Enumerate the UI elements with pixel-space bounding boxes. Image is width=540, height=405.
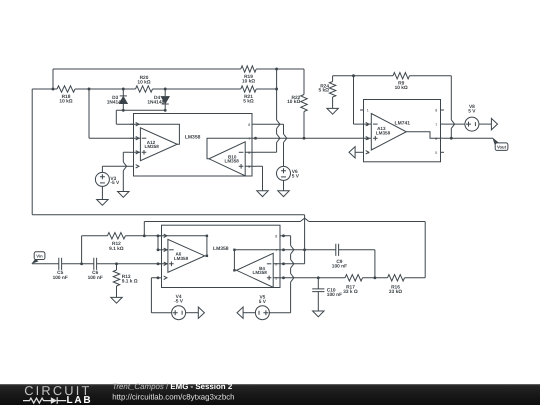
wire: Vin to C5 <box>32 263 59 265</box>
resistor R13 with ground <box>113 264 138 298</box>
wire: U3 pin 4 (V-) to V4 <box>151 278 171 313</box>
svg-text:5 V: 5 V <box>468 109 476 115</box>
svg-text:100 nF: 100 nF <box>332 264 347 270</box>
resistor R21 <box>241 86 256 105</box>
svg-text:10 kΩ: 10 kΩ <box>287 99 300 105</box>
svg-text:5: 5 <box>248 165 250 169</box>
svg-text:10 kΩ: 10 kΩ <box>137 80 150 86</box>
svg-text:LM358: LM358 <box>145 144 160 149</box>
resistor R16 <box>388 275 405 296</box>
svg-text:http://circuitlab.com/c8ytxag3: http://circuitlab.com/c8ytxag3xzbch <box>112 393 234 402</box>
ground (rotated left, before V5) <box>237 307 243 318</box>
wire: R18/R20 node down to A12 inverting input pin 2 <box>89 89 134 138</box>
svg-text:100 nF: 100 nF <box>327 292 342 298</box>
node: C9/R17/R16 junction <box>373 276 376 279</box>
ground (below V6) <box>278 191 289 197</box>
wire: output pin 6 to Vout <box>444 137 493 139</box>
svg-text:100 nF: 100 nF <box>53 275 68 281</box>
wire: R12 node up and across to R16 (wire B) <box>144 218 425 278</box>
svg-text:LM358: LM358 <box>376 130 391 135</box>
op-amp A6 (LM358) triangle <box>162 235 209 273</box>
resistor R18 <box>57 86 75 105</box>
capacitor C10 with ground <box>312 278 342 311</box>
node: A6 pin 1 connection dot <box>157 234 160 237</box>
op-amp A12 (LM358) triangle <box>134 124 180 161</box>
svg-text:6: 6 <box>435 137 437 141</box>
pin stubs and arrows of U3 <box>158 234 284 280</box>
resistor R12 <box>107 233 161 252</box>
op-amp B4 (LM358) triangle, mirrored <box>233 249 280 288</box>
footer bar <box>0 384 540 405</box>
svg-text:LM358: LM358 <box>213 246 229 252</box>
svg-text:Vout: Vout <box>497 144 507 149</box>
ground (rotated left, U2 pin 4) <box>349 147 360 158</box>
wire: lower input rail segments <box>62 263 162 265</box>
svg-text:Trent_Campos / EMG - Session 2: Trent_Campos / EMG - Session 2 <box>112 382 233 391</box>
capacitor C6 <box>88 258 103 281</box>
wire: U3 pin 8 (V+) to V5 <box>269 236 294 313</box>
resistor R22 <box>287 69 307 138</box>
svg-text:8: 8 <box>275 235 277 239</box>
op-amp A13 (LM358) triangle <box>364 114 441 151</box>
node flag Vin <box>32 252 45 264</box>
svg-text:LM358: LM358 <box>253 270 268 275</box>
svg-text:LM358: LM358 <box>185 135 201 141</box>
ground (below R24) <box>327 108 338 114</box>
wire: node1 up to R12 <box>82 236 108 264</box>
node: C5/C6/R12 junction <box>80 262 83 265</box>
svg-text:9.1 kΩ: 9.1 kΩ <box>109 246 124 252</box>
ground (B10 + input) <box>257 191 268 197</box>
svg-text:10 kΩ: 10 kΩ <box>242 78 255 84</box>
voltage source V6 (5 V) <box>277 166 300 190</box>
svg-text:33 k Ω: 33 k Ω <box>343 289 358 295</box>
op-amp package U2 (LM741, A13) box <box>364 100 441 162</box>
svg-text:5: 5 <box>435 151 437 155</box>
ground (rotated right, after V4) <box>198 307 204 318</box>
svg-text:-5 V: -5 V <box>110 180 120 186</box>
op-amp B10 (LM358) triangle, mirrored <box>207 138 252 176</box>
pin stubs and arrows of U1 <box>130 123 256 170</box>
svg-text:10 kΩ: 10 kΩ <box>59 98 72 104</box>
wire: main upper rail through R18/R20/R21 <box>32 88 276 90</box>
svg-text:8: 8 <box>435 109 437 113</box>
node: A6 pin 2 connection dot <box>157 248 160 251</box>
wire: left feedback rail from R18 left down and across (wire A) <box>32 89 304 250</box>
resistor R17 <box>343 275 362 296</box>
voltage source V3 (-5 V) <box>95 172 120 199</box>
svg-text:1N4148: 1N4148 <box>107 99 124 105</box>
svg-text:LM358: LM358 <box>174 256 189 261</box>
ground (below R13) <box>111 297 122 303</box>
node: R22/main wire junction <box>303 137 306 140</box>
node: B4 output/feedback 4-way junction <box>303 248 306 251</box>
node: C10 tap junction <box>317 276 320 279</box>
capacitor C5 <box>53 258 68 281</box>
svg-text:7: 7 <box>275 249 277 253</box>
voltage source V4 (-5 V) <box>172 294 199 320</box>
wire: B4 output pin 7 through C9 <box>284 250 375 278</box>
voltage source V5 (5 V) <box>243 295 269 320</box>
svg-text:10 kΩ: 10 kΩ <box>395 85 408 91</box>
wire: R24 top to R9 feedback rail <box>333 75 452 77</box>
svg-text:LAB: LAB <box>67 395 93 405</box>
svg-text:7: 7 <box>248 137 250 141</box>
wire: R9 right side down to output pin 6 <box>451 76 454 139</box>
svg-text:LM358: LM358 <box>225 159 240 164</box>
node: R21 wire junction <box>275 88 278 91</box>
node: U3 right pin connection dots (pins 8,7,6,5) <box>282 234 285 279</box>
svg-text:6: 6 <box>248 151 250 155</box>
wire: B4 inverting input pin 6 feedback to output <box>284 250 305 264</box>
wire: U1 pin 8 (V+) to V6 <box>256 124 287 166</box>
svg-text:5: 5 <box>275 277 277 281</box>
pin stubs, arrows, numbers of U2 <box>360 109 444 155</box>
svg-text:LM741: LM741 <box>395 120 411 126</box>
svg-text:9.1 k Ω: 9.1 k Ω <box>122 279 138 285</box>
node: R12/feedback junction <box>143 234 146 237</box>
wire: U1 pin 4 (V-) to V3 <box>102 166 130 172</box>
ground (rotated right, after V8) <box>491 118 497 129</box>
wire: B10 + input pin 5 to ground <box>256 166 263 191</box>
op-amp package U3 (dual LM358: A6/B4) box <box>162 225 281 287</box>
node: top wire/R19 junction <box>275 68 278 71</box>
svg-text:1N4148: 1N4148 <box>147 99 164 105</box>
svg-text:6: 6 <box>275 263 277 267</box>
wire: U3 pin 5 rail with R17 and R16 <box>284 277 426 279</box>
node: U3 pin 4 connection dot <box>157 276 160 279</box>
node flag Vout <box>493 138 508 150</box>
svg-text:5 V: 5 V <box>259 299 267 305</box>
diode D3 (1N4148, cathode up) <box>107 89 128 110</box>
node: B10 pin 7 connection dot <box>254 137 257 140</box>
svg-text:8: 8 <box>248 123 250 127</box>
wire: R19/R21 node down to B10 inverting input pin 6 <box>256 69 280 152</box>
svg-text:1: 1 <box>367 109 369 113</box>
capacitor C9 <box>332 244 347 270</box>
wire: R12/OUT node down to A6 inverting input pin 2 <box>157 236 159 250</box>
wire: main signal B10 output to A13 + input <box>256 137 361 139</box>
node: A6 pin 3 connection dot <box>157 262 160 265</box>
node: C6/R13/pin3 junction <box>115 262 118 265</box>
diode D4 (1N4148, cathode down) <box>147 89 169 110</box>
node: junction dots on upper rail <box>52 88 167 112</box>
op-amp package U1 (dual LM358: A12/B10) box <box>134 114 253 177</box>
svg-text:100 nF: 100 nF <box>88 275 103 281</box>
resistor R9 <box>393 73 410 91</box>
svg-text:5 kΩ: 5 kΩ <box>318 88 329 94</box>
wire: diode output rail to op-amp A12 output pin 1 <box>116 110 165 124</box>
CircuitLab logo <box>23 383 92 405</box>
svg-text:7: 7 <box>435 123 437 127</box>
footer title <box>112 382 234 401</box>
svg-text:Vin: Vin <box>36 254 43 259</box>
resistor R19 <box>241 66 256 85</box>
node: R24/R9/pin2 junction <box>352 74 355 77</box>
resistor R24 with ground <box>318 76 335 109</box>
wire: top feedback wire from R18 node to R22 top <box>53 69 304 89</box>
wire: R9 node down to A13 inverting input pin 2 <box>354 76 361 124</box>
resistor R20 <box>136 75 153 92</box>
svg-text:5 V: 5 V <box>292 174 300 180</box>
svg-text:5 kΩ: 5 kΩ <box>243 98 254 104</box>
node: R9/output junction <box>450 137 453 140</box>
svg-text:33 kΩ: 33 kΩ <box>389 289 402 295</box>
ground (below V3) <box>97 200 108 206</box>
ground (A12 + input) <box>118 192 129 198</box>
ground (below C10) <box>313 311 324 317</box>
voltage source V8 (5 V) on U2 pin 7 <box>444 104 491 131</box>
wire: A12 + input pin 3 to ground <box>123 152 130 191</box>
svg-text:-5 V: -5 V <box>174 298 184 304</box>
